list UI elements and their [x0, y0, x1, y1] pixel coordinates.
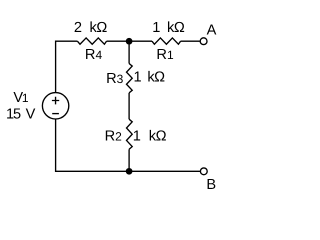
node junction bottom: [126, 168, 133, 175]
svg-text:1 kΩ: 1 kΩ: [133, 128, 167, 144]
terminal A: [200, 38, 207, 45]
svg-text:15 V: 15 V: [6, 107, 36, 123]
resistor R1: [152, 38, 181, 44]
svg-text:V1: V1: [13, 90, 28, 106]
svg-text:1 kΩ: 1 kΩ: [134, 70, 166, 86]
resistor R2: [127, 119, 133, 149]
terminal B: [200, 168, 207, 175]
voltage source V1: [42, 93, 68, 119]
wire: [56, 41, 78, 92]
svg-text:R2: R2: [105, 128, 123, 144]
wire: [128, 149, 130, 171]
svg-text:2 kΩ: 2 kΩ: [74, 20, 107, 36]
resistor R4: [77, 38, 106, 44]
minus: [52, 113, 59, 115]
svg-text:1 kΩ: 1 kΩ: [152, 20, 185, 36]
wire: [56, 119, 201, 171]
wire: [181, 40, 201, 42]
node junction top: [126, 38, 133, 45]
wire: [128, 41, 130, 63]
svg-text:R1: R1: [156, 47, 174, 63]
svg-text:R3: R3: [106, 71, 124, 87]
resistor R3: [127, 64, 133, 93]
wire: [128, 93, 130, 119]
svg-text:B: B: [206, 177, 216, 193]
svg-text:A: A: [207, 22, 217, 38]
svg-text:R4: R4: [85, 47, 103, 63]
wire: [107, 40, 153, 42]
plus: [52, 97, 59, 105]
